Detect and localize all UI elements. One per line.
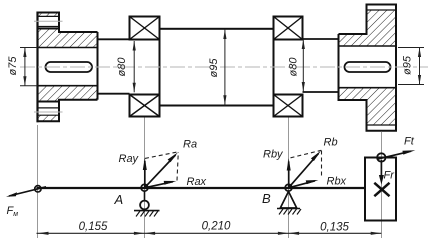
shaft seg ph80 right (303, 38, 339, 40)
support B pin (280, 192, 296, 209)
svg-text:ø95: ø95 (208, 58, 220, 78)
shaft mid ph95 (160, 29, 274, 106)
force Fm (6, 187, 46, 218)
flange F1 outline (37, 12, 61, 123)
force Ft (378, 151, 411, 159)
dim phi80 bearing1 (133, 41, 136, 92)
hub H1 outline (38, 29, 98, 102)
node right (377, 153, 385, 161)
ext line B (288, 118, 290, 239)
svg-text:Rby: Rby (263, 149, 284, 161)
bore lines right hub (339, 45, 397, 47)
node left (35, 186, 41, 192)
hatch fills right hub (339, 34, 367, 46)
dim phi80 bearing2 (302, 40, 305, 92)
keyway K1 (46, 62, 93, 72)
bearing B2 (274, 17, 303, 117)
node B (285, 184, 292, 191)
ext line left node (37, 125, 39, 238)
svg-text:A: A (114, 192, 124, 207)
svg-text:ø75: ø75 (7, 56, 19, 76)
svg-text:Rax: Rax (187, 176, 207, 188)
hatch fills left hub (59, 32, 98, 48)
svg-text:0,210: 0,210 (202, 221, 231, 233)
vector Rb (289, 154, 319, 188)
svg-text:0,155: 0,155 (79, 221, 108, 233)
parallelogram dashes A (145, 152, 178, 181)
svg-text:ø95: ø95 (401, 55, 413, 75)
svg-text:B: B (262, 191, 271, 206)
hatch fills right disc (367, 10, 397, 46)
svg-text:ø80: ø80 (116, 57, 128, 77)
node A (141, 184, 148, 191)
ext line right load (381, 132, 383, 239)
bearing B1 (130, 17, 160, 117)
right hub outline (339, 5, 397, 131)
hatch fills left flange (38, 13, 60, 17)
keyway K2 (345, 62, 391, 72)
vector Ray (144, 161, 146, 188)
ext line A (144, 118, 146, 239)
support A roller (144, 191, 146, 201)
X mark (374, 183, 389, 196)
vector Ra (145, 155, 176, 188)
bore lines left hub (38, 47, 98, 49)
parallelogram dashes B (291, 150, 322, 178)
svg-text:Rb: Rb (324, 137, 338, 149)
svg-text:Rbx: Rbx (327, 176, 347, 188)
force Fr (380, 160, 382, 179)
svg-text:Ra: Ra (183, 139, 197, 151)
shaft seg ph80 left (98, 38, 130, 40)
svg-text:0,135: 0,135 (320, 222, 349, 234)
svg-text:Ft: Ft (404, 136, 415, 148)
svg-text:Fr: Fr (384, 170, 396, 182)
centerline axis (20, 66, 428, 68)
bottom dim chain (37, 232, 382, 235)
vector Rbx (289, 181, 316, 188)
dim phi75 (20, 48, 38, 86)
svg-text:Ray: Ray (119, 153, 140, 165)
disc rim lines (367, 9, 397, 11)
load box (365, 158, 396, 221)
beam (37, 187, 366, 189)
svg-text:ø80: ø80 (287, 57, 299, 77)
dim phi95 mid (223, 29, 226, 106)
vector Rby (288, 162, 290, 188)
bolt hole centerlines (34, 20, 63, 22)
dim phi95 right (398, 48, 424, 85)
vector Rax (145, 182, 174, 188)
